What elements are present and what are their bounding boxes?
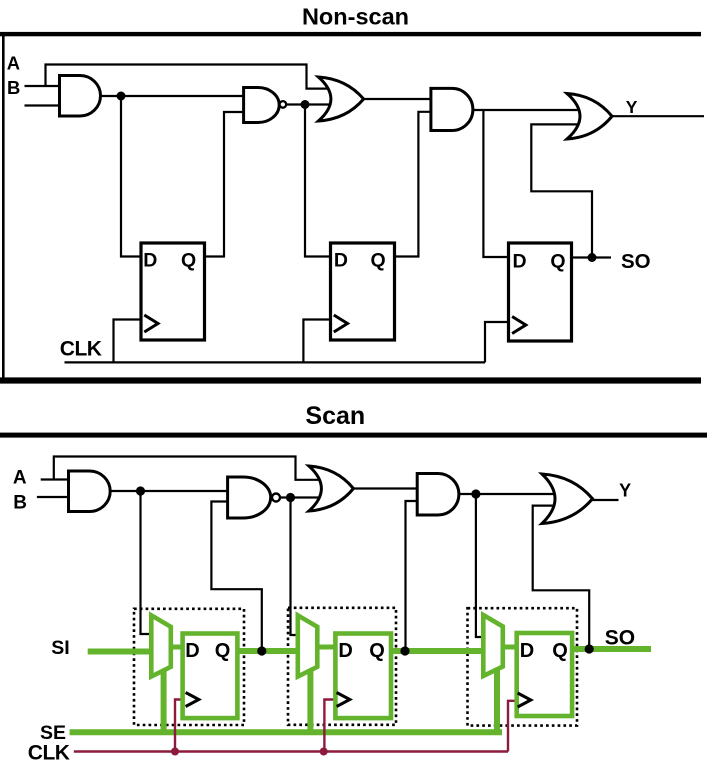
svg-text:D: D — [338, 640, 352, 662]
FF2 clock chevron — [334, 315, 348, 332]
svg-text:D: D — [513, 251, 527, 273]
FF1 clock chevron — [144, 315, 158, 332]
wire SFF2 Q up to AND U4 lower input — [406, 501, 419, 648]
node after U2 — [286, 493, 295, 502]
and-gate G1 — [60, 76, 101, 117]
svg-text:A: A — [13, 468, 27, 489]
mux M3 output to SFF3 — [503, 645, 518, 650]
wire NAND G2 output to OR G3 — [286, 103, 331, 105]
svg-text:Q: Q — [550, 251, 565, 273]
wire NAND U2 output to OR U3 — [281, 496, 321, 498]
mux M1 output to SFF1 — [171, 645, 184, 650]
wire CLK rail — [65, 361, 486, 363]
node SFF2 Q — [400, 646, 409, 655]
nand-gate U2 bubble — [272, 494, 280, 502]
svg-text:Y: Y — [619, 481, 631, 501]
flip-flop FF2 body — [331, 243, 395, 340]
node CLK-SFF1 — [171, 748, 179, 756]
flip-flop FF1 body — [141, 243, 205, 340]
svg-text:A: A — [7, 52, 20, 73]
mux M1 — [151, 615, 171, 676]
scan cell box 1 (dotted) — [134, 609, 244, 725]
node after G2 — [301, 100, 310, 109]
wire CLK to SFF1 clock — [175, 700, 182, 752]
svg-text:D: D — [185, 640, 199, 662]
wire SE to MUX1 select — [161, 668, 167, 732]
svg-text:Y: Y — [626, 97, 638, 117]
svg-text:Q: Q — [181, 250, 196, 272]
wire OR G3 output to AND G4 — [363, 98, 432, 100]
wire OR U3 output to AND U4 — [353, 487, 419, 489]
node CLK-SFF2 — [320, 748, 328, 756]
bottom border line (non-scan) — [0, 377, 701, 383]
wire CLK to SFF2 clock — [324, 700, 335, 752]
node SO — [588, 253, 597, 262]
wire Y output (scan) — [592, 499, 619, 501]
separator line (scan top) — [0, 433, 707, 438]
svg-text:Q: Q — [369, 640, 385, 662]
svg-text:Non-scan: Non-scan — [302, 3, 409, 29]
scan flip-flop SFF1 body — [183, 634, 238, 719]
flip-flop FF3 body — [509, 243, 572, 341]
svg-text:Scan: Scan — [305, 402, 365, 430]
wire FF3 Q zig-zag up to OR G5 lower input — [531, 124, 592, 257]
and-gate U1 (scan) — [69, 471, 111, 512]
nand-gate U2 body (scan) — [228, 477, 271, 518]
wire SI to MUX1 — [88, 649, 151, 655]
wire A net (top rail to OR gate G3) — [46, 65, 330, 89]
svg-text:D: D — [143, 250, 157, 272]
wire SFF2 Q to MUX3 — [392, 648, 482, 654]
mux M2 — [298, 615, 318, 676]
wire node-U2 down to MUX2 D input — [291, 498, 300, 636]
wire node-U4 down to MUX3 D input — [476, 494, 485, 637]
svg-text:CLK: CLK — [60, 338, 102, 361]
svg-text:SO: SO — [621, 250, 651, 273]
SFF3 clock chevron — [518, 693, 531, 707]
wire B input scan — [37, 496, 70, 498]
SFF2 clock chevron — [337, 693, 350, 707]
or-gate U3 (scan) — [309, 466, 354, 511]
wire AND G4 output to OR G5 and branch to FF3 — [472, 110, 580, 257]
svg-text:D: D — [520, 640, 534, 662]
wire CLK to FF1 clock — [114, 320, 142, 363]
scan cell box 2 (dotted) — [288, 608, 396, 725]
wire SFF3 Q to SO — [574, 646, 651, 652]
wire SE to MUX3 select — [494, 670, 500, 732]
or-gate G5 — [567, 94, 612, 140]
wire FF2 Q up to AND G4 lower input — [394, 112, 432, 257]
wire CLK rail (scan) — [74, 750, 508, 752]
wire AND U1 output to NAND U2 — [110, 490, 229, 492]
wire SFF1 Q to MUX2 — [239, 648, 298, 654]
wire AND G1 output to NAND G2 — [100, 95, 245, 97]
svg-text:CLK: CLK — [28, 742, 70, 764]
wire FF3 Q to SO — [572, 256, 612, 258]
scan cell box 3 (dotted) — [468, 608, 578, 725]
wire CLK to FF2 clock — [303, 320, 330, 363]
node SO (scan) — [585, 644, 594, 653]
SFF1 clock chevron — [186, 693, 199, 707]
wire Y output — [611, 115, 704, 117]
svg-text:Q: Q — [552, 640, 568, 662]
svg-text:SO: SO — [605, 627, 635, 650]
wire node-U1 down to MUX1 D input — [141, 491, 153, 634]
mux M3 — [483, 615, 503, 676]
node after G1 — [117, 92, 126, 101]
or-gate U5 (scan) — [542, 474, 593, 524]
mux M2 output to SFF2 — [317, 645, 337, 650]
svg-text:B: B — [13, 492, 27, 513]
top border line — [0, 32, 701, 36]
wire SE rail — [70, 729, 502, 735]
svg-text:Q: Q — [371, 250, 386, 272]
node after U1 — [136, 486, 145, 495]
wire SE to MUX2 select — [307, 670, 313, 732]
wire SFF1 Q zig-zag up to NAND U2 lower input — [211, 502, 261, 649]
scan flip-flop SFF3 body — [517, 633, 572, 716]
svg-text:Q: Q — [215, 640, 231, 662]
wire node-G1 down to FF1 D input — [121, 96, 142, 257]
or-gate G3 — [318, 77, 363, 121]
and-gate G4 — [431, 88, 473, 130]
wire node-G2 down to FF2 D input — [305, 105, 331, 257]
left border line — [2, 32, 5, 383]
and-gate U4 (scan) — [417, 474, 459, 516]
node after U4 — [471, 489, 480, 498]
wire CLK to SFF3 clock — [508, 701, 516, 752]
nand-gate G2 bubble — [280, 101, 287, 108]
nand-gate G2 body — [244, 88, 280, 123]
wire AND G1 lower input — [25, 104, 61, 106]
wire AND U4 output to OR U5 — [458, 493, 556, 495]
wire FF1 Q up to NAND G2 lower input — [204, 112, 245, 257]
wire A net scan (stub + top rail to OR U3) — [41, 457, 321, 480]
wire SO zig-zag up to OR U5 lower input — [533, 506, 590, 647]
node SFF1 Q — [257, 646, 266, 655]
svg-text:SE: SE — [40, 722, 66, 744]
svg-text:B: B — [7, 77, 20, 98]
scan flip-flop SFF2 body — [335, 634, 391, 719]
svg-text:SI: SI — [51, 637, 69, 659]
FF3 clock chevron — [512, 317, 526, 334]
svg-text:D: D — [334, 250, 348, 272]
wire B input — [25, 85, 61, 87]
wire CLK to FF3 clock — [485, 322, 509, 362]
